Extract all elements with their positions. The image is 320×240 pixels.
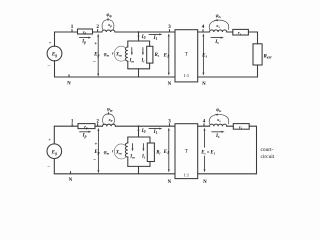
svg-text:4: 4 [203, 118, 206, 124]
current I_m arrow [129, 144, 135, 160]
resistor r_p [78, 124, 95, 130]
wire load to bottom [198, 65, 258, 77]
svg-text:Es = E1: Es = E1 [200, 150, 215, 155]
svg-text:φlp: φlp [107, 107, 113, 112]
inductor x_p [102, 30, 115, 32]
svg-text:1: 1 [71, 24, 74, 30]
svg-text:φm: φm [104, 150, 110, 155]
leakage flux phi_lp arc [102, 13, 114, 29]
magnetizing flux phi_m circular arrow [112, 144, 126, 159]
node 4 [202, 24, 205, 32]
svg-text:N: N [168, 82, 172, 87]
junction node [138, 125, 140, 127]
shunt branch rectangle with magnetizing inductor X_m [125, 137, 150, 166]
current I_s arrow [212, 131, 225, 139]
svg-text:φlp: φlp [107, 13, 113, 18]
leakage flux phi_lp arc [103, 107, 115, 123]
svg-text:1:1: 1:1 [183, 73, 189, 78]
svg-text:Ip: Ip [81, 38, 86, 44]
svg-text:N: N [168, 180, 172, 185]
wire top left [54, 125, 78, 127]
svg-text:+: + [48, 40, 51, 46]
svg-text:Rl: Rl [156, 151, 160, 156]
svg-text:Eg: Eg [51, 149, 57, 155]
core-loss resistor R_l [147, 143, 160, 162]
svg-text:Rext: Rext [264, 53, 273, 59]
node N left [67, 75, 71, 87]
svg-text:+: + [94, 42, 97, 47]
svg-text:rp: rp [84, 124, 88, 130]
svg-text:I0: I0 [141, 34, 146, 40]
svg-text:I1: I1 [153, 129, 158, 135]
svg-text:E1: E1 [163, 149, 169, 155]
current I_0 arrow [138, 33, 146, 40]
inductor x_p [103, 124, 116, 126]
node 3 [168, 24, 171, 32]
voltage arrow E_p [92, 34, 99, 77]
svg-text:xp: xp [107, 117, 112, 123]
svg-text:2: 2 [96, 118, 99, 124]
svg-text:Ip: Ip [82, 133, 87, 139]
voltage arrow E_1 [163, 128, 170, 173]
shunt branch stem bottom [138, 69, 140, 77]
svg-text:–: – [92, 60, 96, 65]
svg-text:2: 2 [96, 24, 99, 30]
svg-text:3: 3 [168, 24, 171, 30]
node 3 [168, 118, 171, 126]
magnetizing flux phi_m circular arrow [112, 46, 126, 61]
wire [115, 31, 175, 33]
svg-text:Il: Il [141, 155, 145, 160]
wire [227, 31, 233, 33]
shunt branch rectangle with magnetizing inductor X_m [125, 41, 149, 69]
wire [93, 31, 103, 33]
svg-text:E1: E1 [163, 53, 169, 59]
svg-text:1: 1 [71, 118, 74, 124]
ideal transformer T [175, 124, 198, 179]
load resistor R_ext [253, 44, 272, 65]
svg-text:+: + [48, 137, 51, 143]
junction node [138, 31, 140, 33]
node 4 [203, 118, 206, 126]
bottom wire left [55, 76, 176, 78]
svg-text:–: – [92, 157, 96, 162]
inductor x_s [210, 124, 227, 126]
wire [115, 125, 175, 127]
svg-text:–: – [47, 63, 51, 69]
wire [198, 31, 210, 33]
wire [227, 125, 234, 127]
shunt branch stem top [138, 126, 140, 137]
source E_g [47, 126, 62, 174]
shunt branch stem bottom [138, 166, 140, 173]
core-loss resistor R_l [147, 46, 159, 63]
svg-text:rp: rp [83, 29, 87, 35]
svg-text:N: N [69, 178, 73, 183]
svg-text:–: – [46, 164, 50, 170]
short circuit wire [198, 126, 257, 174]
node 1 [71, 118, 74, 126]
leakage flux phi_ls arc [209, 14, 229, 29]
current I_l arrow [141, 144, 145, 160]
current I_l arrow [140, 48, 144, 64]
wire top left [55, 31, 78, 33]
node 2 [96, 118, 99, 126]
svg-text:1:1: 1:1 [183, 173, 189, 178]
current I_1 arrow [149, 128, 162, 136]
voltage arrow E_2 = E_1 [200, 128, 215, 173]
current I_p arrow [80, 37, 92, 45]
svg-text:I0: I0 [141, 128, 146, 134]
svg-text:T: T [185, 150, 188, 155]
svg-text:4: 4 [202, 24, 205, 30]
svg-text:N: N [203, 180, 207, 185]
wire [198, 125, 210, 127]
svg-text:xs: xs [215, 23, 220, 29]
svg-text:xp: xp [107, 22, 112, 28]
resistor r_s [233, 29, 249, 36]
svg-text:Is: Is [214, 39, 219, 45]
voltage arrow E_2 [201, 33, 207, 75]
ideal transformer T [175, 30, 198, 82]
svg-text:Is: Is [215, 133, 220, 139]
wire [95, 125, 103, 127]
current I_m arrow [128, 48, 134, 64]
voltage arrow E_1 [163, 33, 170, 75]
svg-text:+: + [94, 143, 97, 148]
resistor r_s [233, 124, 249, 131]
svg-text:circuit: circuit [261, 154, 275, 160]
shunt branch stem top [138, 32, 140, 41]
resistor r_p [78, 29, 93, 35]
leakage flux phi_ls arc [209, 108, 229, 124]
svg-text:Il: Il [140, 58, 144, 63]
node 1 [71, 24, 74, 32]
svg-text:I1: I1 [153, 35, 158, 41]
source E_g [47, 32, 62, 77]
node N left [69, 172, 73, 183]
svg-text:Xm: Xm [115, 150, 122, 155]
svg-text:Xm: Xm [115, 53, 122, 58]
current I_1 arrow [149, 33, 162, 41]
svg-text:Es: Es [201, 53, 207, 59]
current I_p arrow [80, 131, 92, 139]
svg-text:Im: Im [129, 155, 135, 160]
svg-text:φls: φls [216, 14, 222, 19]
inductor x_s [210, 30, 227, 32]
svg-text:T: T [185, 53, 188, 58]
svg-text:N: N [67, 81, 71, 86]
svg-text:φls: φls [216, 108, 222, 113]
svg-text:Im: Im [128, 58, 134, 63]
svg-text:φm: φm [104, 53, 110, 58]
voltage arrow E_p [92, 128, 99, 174]
svg-text:Rl: Rl [155, 53, 159, 58]
current I_s arrow [211, 37, 224, 45]
svg-text:xs: xs [216, 117, 221, 123]
svg-text:N: N [202, 82, 206, 87]
bottom wire left [54, 173, 175, 175]
svg-text:Eg: Eg [51, 52, 57, 58]
label court-circuit [261, 147, 275, 160]
svg-text:court-: court- [261, 147, 274, 153]
node 2 [96, 24, 99, 32]
current I_0 arrow [138, 127, 146, 134]
svg-text:3: 3 [168, 118, 171, 124]
wire to load [248, 32, 257, 44]
